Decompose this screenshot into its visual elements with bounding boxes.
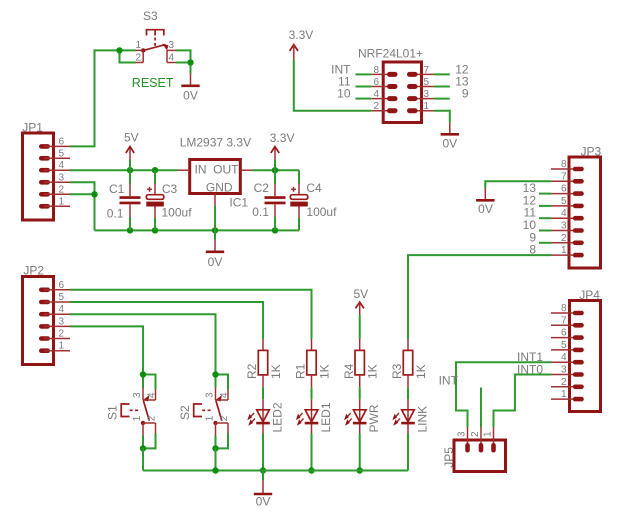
JP5 pin 3 (467, 427, 469, 449)
svg-text:NRF24L01+: NRF24L01+ (358, 46, 423, 60)
svg-text:4: 4 (561, 352, 567, 363)
svg-text:INT: INT (439, 374, 459, 388)
wire IC1 GND down to rail (214, 206, 216, 230)
junction JP1 pin2 (91, 191, 97, 197)
wire JP4 pin4 INT1 to JP5 pin3 (456, 362, 551, 427)
svg-text:1: 1 (561, 245, 567, 256)
svg-text:PWR: PWR (367, 404, 381, 432)
wire NRF pin 4 net 10 (356, 98, 372, 100)
JP1 pin 4 (44, 169, 70, 171)
ground 0V at bottom rail (254, 471, 272, 509)
NRF pin 3 (412, 98, 434, 100)
svg-text:2: 2 (373, 101, 379, 112)
JP3 pin 1 (551, 254, 578, 256)
wire JP3 pin2 net 9 (539, 242, 551, 244)
wire LINK to rail (407, 434, 409, 471)
svg-text:4: 4 (373, 89, 379, 100)
wire NRF pin 6 net 11 (356, 86, 372, 88)
pin header NRF24L01+ (358, 46, 434, 122)
switch S3 (135, 9, 176, 63)
junction S3 right (187, 59, 193, 65)
svg-text:2: 2 (135, 52, 141, 63)
JP5 pin 2 (480, 427, 482, 449)
junction LED2 rail (260, 467, 266, 473)
connector JP3 (551, 144, 602, 268)
svg-text:6: 6 (561, 328, 567, 339)
svg-text:8: 8 (561, 303, 567, 314)
JP1 pin 2 (44, 193, 70, 195)
JP4 pin 6 (551, 337, 578, 339)
junction S1 bottom (140, 445, 146, 451)
JP4 pin 4 (551, 361, 578, 363)
wire R4 to PWR (359, 387, 361, 399)
wire INT to JP5 pin2 (480, 388, 482, 428)
wire R3 to LINK (407, 387, 409, 399)
supply 5V arrow at C1 (124, 131, 139, 171)
svg-text:GND: GND (206, 180, 233, 194)
svg-text:3: 3 (561, 365, 567, 376)
svg-text:IN: IN (195, 162, 207, 176)
JP1 pin 6 (44, 145, 70, 147)
NRF pin 4 (371, 98, 392, 100)
NRF pin 7 (412, 73, 434, 75)
JP4 pin 8 (551, 312, 578, 314)
svg-text:RESET: RESET (132, 76, 174, 90)
svg-text:2: 2 (59, 184, 65, 195)
resistor R4 (342, 339, 380, 387)
wire JP2 pin6 to R1 (70, 290, 312, 339)
JP2 pin 1 (44, 350, 70, 352)
svg-text:C1: C1 (109, 182, 125, 196)
junction S1 top (140, 371, 146, 377)
wire JP1 pin6 to S3 pins 1-2 (70, 50, 136, 146)
wire ground rail under regulator (95, 229, 300, 231)
wire S2 to rail (215, 448, 217, 470)
junction C2 top (272, 167, 278, 173)
svg-text:4: 4 (219, 392, 230, 398)
svg-text:1: 1 (59, 341, 65, 352)
JP4 pin 7 (551, 324, 578, 326)
wire bottom ground rail (143, 470, 408, 472)
svg-text:1: 1 (561, 389, 567, 400)
svg-text:5: 5 (59, 292, 65, 303)
JP5 pin 1 (493, 427, 495, 449)
svg-text:0.1: 0.1 (252, 205, 269, 219)
svg-text:4: 4 (147, 392, 158, 398)
wire LED2 to rail (262, 434, 264, 471)
svg-text:1K: 1K (318, 364, 332, 379)
LED LED1 (296, 399, 333, 433)
svg-text:2: 2 (59, 329, 65, 340)
JP2 pin 6 (44, 289, 70, 291)
svg-text:2: 2 (470, 431, 481, 437)
wire NRF pin 3 net 9 (434, 98, 450, 100)
capacitor C1 (107, 170, 141, 230)
connector JP1 (22, 121, 70, 221)
ground 0V at JP3 (476, 189, 494, 217)
junction C3 bottom (152, 227, 158, 233)
wire JP3 pin6 net 13 (539, 193, 551, 195)
svg-text:R3: R3 (390, 363, 404, 379)
svg-text:0V: 0V (256, 495, 271, 509)
svg-text:0V: 0V (183, 89, 198, 103)
svg-text:3: 3 (205, 392, 216, 398)
svg-text:S1: S1 (106, 405, 120, 420)
wire JP3 pin7 to ground (485, 181, 551, 188)
svg-text:1: 1 (483, 431, 494, 437)
wire JP1 pin3 and pin2 to ground rail (70, 182, 95, 230)
svg-text:5V: 5V (354, 287, 369, 301)
wire NRF pin 8 INT (356, 73, 372, 75)
svg-text:3.3V: 3.3V (270, 131, 295, 145)
svg-text:3: 3 (457, 431, 468, 437)
switch S2 (178, 388, 230, 436)
svg-text:100uf: 100uf (162, 206, 193, 220)
svg-text:5V: 5V (124, 131, 139, 145)
svg-text:LED1: LED1 (319, 402, 333, 432)
svg-text:S3: S3 (143, 9, 158, 23)
svg-text:LED2: LED2 (271, 402, 285, 432)
svg-text:3: 3 (561, 221, 567, 232)
svg-text:IC1: IC1 (229, 196, 248, 210)
svg-text:R4: R4 (342, 363, 356, 379)
wire NRF pin 7 net 12 (434, 73, 450, 75)
wire JP3 pin3 net 10 (539, 230, 551, 232)
JP3 pin 7 (551, 180, 578, 182)
svg-text:0V: 0V (442, 136, 457, 150)
JP1 pin 5 (44, 157, 70, 159)
ground 0V at S3 (181, 74, 199, 103)
NRF pin 2 (371, 110, 392, 112)
resistor R2 (245, 339, 283, 387)
supply 3.3V arrow at C2 (270, 131, 295, 170)
svg-text:R2: R2 (245, 363, 259, 379)
JP3 pin 4 (551, 217, 578, 219)
wire 3.3V to NRF pin 2 (294, 60, 371, 111)
LED LED2 (247, 399, 284, 433)
JP4 pin 2 (551, 386, 578, 388)
wire R1 to LED1 (311, 387, 313, 399)
svg-text:6: 6 (561, 184, 567, 195)
wire S1 to rail (142, 448, 144, 470)
svg-text:10: 10 (337, 87, 351, 101)
svg-text:C3: C3 (162, 182, 178, 196)
JP3 pin 5 (551, 205, 578, 207)
ground 0V at IC1 (206, 230, 224, 268)
svg-text:1: 1 (132, 415, 143, 421)
switch S1 (106, 388, 158, 436)
LED PWR (344, 399, 381, 433)
junction S2 rail (212, 467, 218, 473)
wire JP4 pin3 INT0 to JP5 pin1 (494, 375, 552, 428)
svg-text:LM2937 3.3V: LM2937 3.3V (180, 136, 251, 150)
svg-text:2: 2 (147, 415, 158, 421)
wire S2 bottom loop (216, 434, 229, 449)
wire JP3 pin1 to R3 (408, 255, 551, 339)
supply 5V arrow at R4 (354, 287, 369, 339)
JP2 pin 2 (44, 338, 70, 340)
wire LED1 to rail (311, 434, 313, 471)
NRF pin 5 (412, 86, 434, 88)
capacitor C3 (146, 170, 192, 230)
NRF pin 6 (371, 86, 392, 88)
connector JP2 (23, 264, 71, 365)
wire JP3 pin4 net 11 (539, 217, 551, 219)
wire JP2 pin5 to R2 (70, 302, 263, 339)
svg-text:8: 8 (561, 159, 567, 170)
JP4 pin 5 (551, 349, 578, 351)
junction PWR rail (357, 467, 363, 473)
JP4 pin 1 (551, 398, 578, 400)
wire IC1 OUT 3.3V rail (252, 169, 299, 171)
supply 3.3V arrow top (289, 28, 314, 60)
svg-text:1: 1 (135, 40, 141, 51)
connector JP4 (551, 288, 601, 412)
junction C2 bottom (272, 227, 278, 233)
svg-text:7: 7 (424, 65, 430, 76)
junction IC1 GND (212, 227, 218, 233)
svg-text:1: 1 (424, 101, 430, 112)
svg-text:5: 5 (424, 77, 430, 88)
svg-text:2: 2 (219, 415, 230, 421)
svg-text:C2: C2 (254, 181, 270, 195)
svg-text:6: 6 (59, 136, 65, 147)
svg-text:LINK: LINK (416, 406, 430, 433)
wire S3 pins 3-4 to ground (176, 50, 191, 73)
svg-text:OUT: OUT (213, 162, 239, 176)
svg-text:3: 3 (59, 316, 65, 327)
JP3 pin 6 (551, 193, 578, 195)
junction C1 top (127, 167, 133, 173)
NRF pin 1 (412, 110, 434, 112)
svg-text:3.3V: 3.3V (289, 28, 314, 42)
svg-text:0V: 0V (478, 202, 493, 216)
wire JP3 pin5 net 12 (539, 205, 551, 207)
voltage regulator IC1 LM2937 (178, 136, 253, 210)
svg-text:3: 3 (132, 392, 143, 398)
svg-text:1: 1 (59, 196, 65, 207)
svg-text:7: 7 (561, 315, 567, 326)
svg-text:9: 9 (462, 87, 469, 101)
junction C1 bottom (127, 227, 133, 233)
svg-text:3: 3 (424, 89, 430, 100)
svg-text:0V: 0V (208, 255, 223, 269)
svg-text:6: 6 (59, 280, 65, 291)
svg-text:4: 4 (59, 160, 65, 171)
svg-text:100uf: 100uf (306, 205, 337, 219)
wire NRF pin 1 to ground (434, 111, 450, 123)
connector JP5 (442, 427, 506, 472)
svg-text:2: 2 (561, 233, 567, 244)
svg-text:5: 5 (59, 148, 65, 159)
svg-text:R1: R1 (294, 363, 308, 379)
svg-text:3: 3 (169, 40, 175, 51)
wire S2 top loop (216, 375, 229, 390)
JP2 pin 3 (44, 325, 70, 327)
wire NRF pin 5 net 13 (434, 86, 450, 88)
junction S3 left (116, 47, 122, 53)
wire S1 top loop (143, 375, 156, 390)
JP3 pin 2 (551, 242, 578, 244)
svg-text:4: 4 (169, 52, 175, 63)
svg-text:5: 5 (561, 196, 567, 207)
JP1 pin 3 (44, 181, 70, 183)
svg-text:1K: 1K (414, 364, 428, 379)
svg-text:5: 5 (561, 340, 567, 351)
wire 5V rail JP1 pin4 to IC1 IN (70, 169, 178, 171)
svg-text:0.1: 0.1 (107, 206, 124, 220)
ground 0V at NRF (441, 123, 459, 151)
capacitor C2 (252, 170, 285, 230)
svg-text:1K: 1K (366, 364, 380, 379)
wire JP2 pin4 to S2 (70, 314, 216, 374)
junction LED1 rail (308, 467, 314, 473)
junction C3 top (152, 167, 158, 173)
resistor R1 (294, 339, 332, 387)
svg-text:1K: 1K (269, 364, 283, 379)
capacitor C4 (290, 170, 337, 230)
wire R2 to LED2 (262, 387, 264, 399)
JP3 pin 8 (551, 168, 578, 170)
svg-text:7: 7 (561, 171, 567, 182)
svg-text:S2: S2 (178, 405, 192, 420)
JP2 pin 5 (44, 301, 70, 303)
JP2 pin 4 (44, 313, 70, 315)
resistor R3 (390, 339, 428, 387)
JP3 pin 3 (551, 230, 578, 232)
svg-text:4: 4 (59, 304, 65, 315)
svg-text:3: 3 (59, 172, 65, 183)
svg-text:2: 2 (561, 377, 567, 388)
JP4 pin 3 (551, 374, 578, 376)
svg-text:4: 4 (561, 208, 567, 219)
NRF pin 8 (371, 73, 392, 75)
svg-text:8: 8 (373, 65, 379, 76)
JP1 pin 1 (44, 205, 70, 207)
LED LINK (392, 399, 429, 433)
svg-text:1: 1 (205, 415, 216, 421)
svg-text:C4: C4 (306, 181, 322, 195)
wire S1 bottom loop (143, 434, 156, 449)
wire PWR to rail (359, 434, 361, 471)
junction S2 bottom (212, 445, 218, 451)
wire JP2 pin3 to S1 (70, 326, 143, 374)
svg-text:6: 6 (373, 77, 379, 88)
junction S2 top (212, 371, 218, 377)
